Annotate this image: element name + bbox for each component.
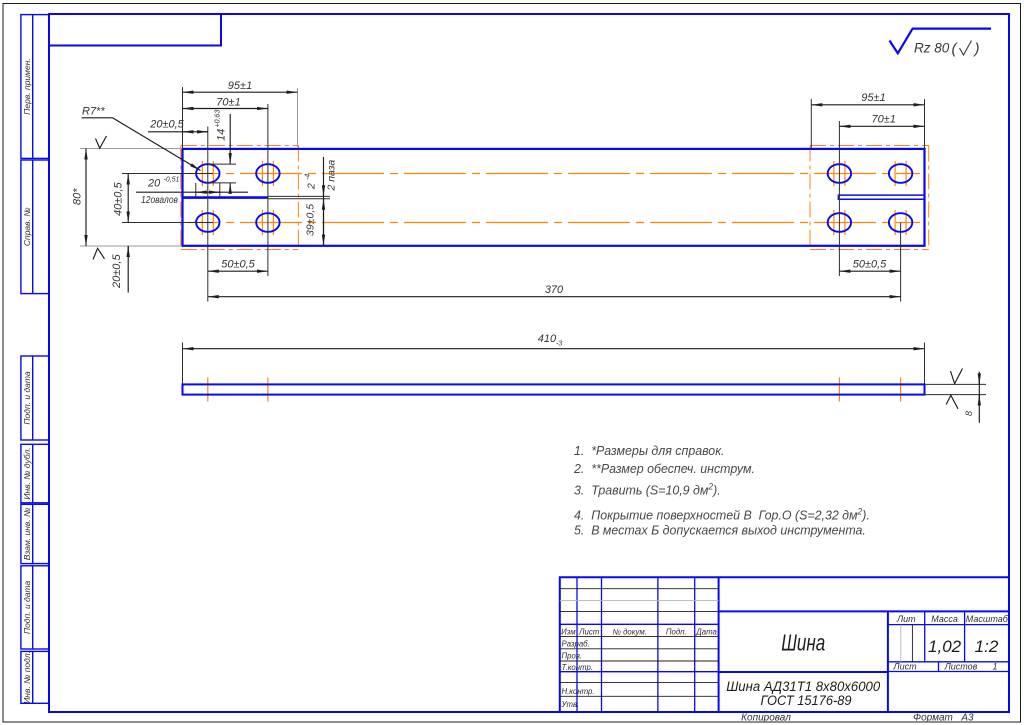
svg-text:Пров.: Пров. — [562, 652, 583, 661]
svg-text:95±1: 95±1 — [861, 92, 885, 104]
svg-text:R7**: R7** — [82, 106, 105, 118]
svg-text:4. Покрытие поверхностей В Г: 4. Покрытие поверхностей В Гор.О (S=2,32… — [574, 506, 870, 522]
svg-text:14: 14 — [216, 129, 228, 141]
svg-text:2: 2 — [306, 183, 318, 190]
svg-text:Подп. и дата: Подп. и дата — [22, 371, 32, 424]
svg-text:ГОСТ 15176-89: ГОСТ 15176-89 — [761, 693, 852, 708]
svg-text:А3: А3 — [960, 713, 974, 724]
svg-text:+0,63: +0,63 — [215, 110, 222, 128]
svg-text:(: ( — [952, 41, 959, 58]
svg-text:5. В местах Б допускается вых: 5. В местах Б допускается выход инструме… — [574, 522, 866, 537]
svg-text:Н.контр.: Н.контр. — [562, 687, 595, 696]
svg-text:Утв.: Утв. — [561, 700, 580, 709]
svg-text:50±0,5: 50±0,5 — [221, 259, 255, 271]
svg-text:12овалов: 12овалов — [141, 195, 178, 206]
svg-text:-4: -4 — [305, 174, 312, 180]
svg-text:Перв. примен.: Перв. примен. — [22, 58, 32, 115]
svg-text:Подп.: Подп. — [666, 627, 687, 636]
svg-text:Т.контр.: Т.контр. — [562, 663, 593, 672]
svg-text:1,02: 1,02 — [928, 637, 962, 656]
svg-text:Копировал: Копировал — [741, 713, 791, 724]
svg-text:2 паза: 2 паза — [326, 160, 338, 192]
svg-text:70±1: 70±1 — [216, 96, 240, 108]
svg-text:Инв. № дубл.: Инв. № дубл. — [22, 447, 32, 499]
svg-text:70±1: 70±1 — [872, 113, 896, 125]
svg-text:Лист: Лист — [578, 627, 600, 636]
svg-text:Rz 80: Rz 80 — [914, 41, 950, 56]
svg-text:Разраб.: Разраб. — [562, 640, 590, 649]
svg-text:80*: 80* — [72, 188, 84, 205]
svg-text:50±0,5: 50±0,5 — [853, 259, 887, 271]
svg-text:Лист: Лист — [892, 662, 917, 672]
svg-text:Шина: Шина — [781, 631, 825, 656]
svg-text:370: 370 — [545, 284, 564, 296]
svg-text:20±0,5: 20±0,5 — [149, 119, 184, 131]
svg-text:Листов: Листов — [944, 662, 978, 672]
svg-text:Формат: Формат — [913, 713, 953, 724]
svg-text:2. **Размер обеспеч. инструм.: 2. **Размер обеспеч. инструм. — [573, 461, 755, 476]
svg-text:Подп. и дата: Подп. и дата — [22, 581, 32, 634]
svg-text:Инв. № подл.: Инв. № подл. — [22, 651, 32, 704]
svg-text:Взам. инв. №: Взам. инв. № — [22, 508, 32, 561]
svg-text:8: 8 — [964, 411, 974, 416]
svg-text:3. Травить (S=10,9 дм2).: 3. Травить (S=10,9 дм2). — [574, 481, 721, 497]
svg-text:1. *Размеры для справок.: 1. *Размеры для справок. — [574, 443, 725, 458]
svg-text:Дата: Дата — [695, 627, 717, 636]
svg-text:-0,51: -0,51 — [164, 177, 180, 184]
svg-text:95±1: 95±1 — [228, 80, 252, 92]
svg-text:№ докум.: № докум. — [613, 627, 647, 636]
svg-text:410-3: 410-3 — [538, 333, 563, 348]
svg-text:1: 1 — [992, 662, 997, 672]
svg-text:Шина АД31Т1 8х80х6000: Шина АД31Т1 8х80х6000 — [726, 679, 880, 694]
svg-text:1:2: 1:2 — [975, 637, 999, 656]
svg-text:Справ. №: Справ. № — [22, 207, 32, 246]
svg-text:Лит: Лит — [896, 614, 916, 624]
svg-text:20: 20 — [147, 178, 161, 190]
svg-text:20±0,5: 20±0,5 — [111, 254, 123, 289]
svg-text:Изм: Изм — [561, 627, 576, 636]
svg-text:): ) — [973, 41, 980, 58]
svg-text:39±0,5: 39±0,5 — [305, 204, 317, 236]
svg-text:40±0,5: 40±0,5 — [113, 182, 125, 216]
svg-text:Масштаб: Масштаб — [966, 614, 1009, 624]
svg-text:Масса: Масса — [931, 614, 958, 624]
